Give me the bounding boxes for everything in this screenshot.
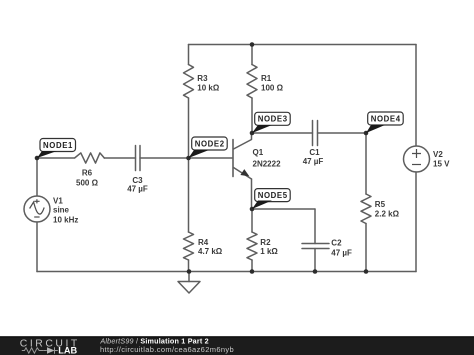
svg-text:47 µF: 47 µF	[303, 157, 324, 166]
svg-text:LAB: LAB	[58, 346, 77, 355]
svg-text:15 V: 15 V	[433, 159, 450, 168]
svg-text:R3: R3	[197, 74, 208, 83]
svg-text:NODE1: NODE1	[43, 141, 73, 150]
svg-text:10 kΩ: 10 kΩ	[197, 84, 220, 93]
svg-text:47 µF: 47 µF	[331, 249, 352, 258]
svg-text:NODE3: NODE3	[258, 115, 288, 124]
svg-text:NODE2: NODE2	[195, 139, 225, 148]
svg-text:V1: V1	[53, 196, 63, 205]
svg-text:R2: R2	[260, 238, 271, 247]
svg-text:2N2222: 2N2222	[253, 159, 282, 168]
svg-text:1 kΩ: 1 kΩ	[260, 247, 278, 256]
svg-text:100 Ω: 100 Ω	[261, 84, 284, 93]
svg-text:http://circuitlab.com/cea6az62: http://circuitlab.com/cea6az62m6nyb	[100, 345, 234, 354]
svg-text:10 kHz: 10 kHz	[53, 216, 78, 225]
svg-text:NODE5: NODE5	[258, 191, 288, 200]
svg-text:R6: R6	[82, 169, 93, 178]
svg-text:Q1: Q1	[253, 148, 264, 157]
svg-text:V2: V2	[433, 150, 443, 159]
svg-text:R4: R4	[198, 238, 209, 247]
svg-text:C2: C2	[331, 239, 342, 248]
svg-text:sine: sine	[53, 206, 70, 215]
svg-text:500 Ω: 500 Ω	[76, 179, 99, 188]
svg-text:2.2 kΩ: 2.2 kΩ	[375, 210, 400, 219]
svg-text:R5: R5	[375, 200, 386, 209]
svg-text:R1: R1	[261, 74, 272, 83]
svg-text:4.7 kΩ: 4.7 kΩ	[198, 247, 223, 256]
svg-text:47 µF: 47 µF	[127, 185, 148, 194]
svg-text:C1: C1	[309, 148, 320, 157]
svg-text:NODE4: NODE4	[371, 114, 401, 123]
